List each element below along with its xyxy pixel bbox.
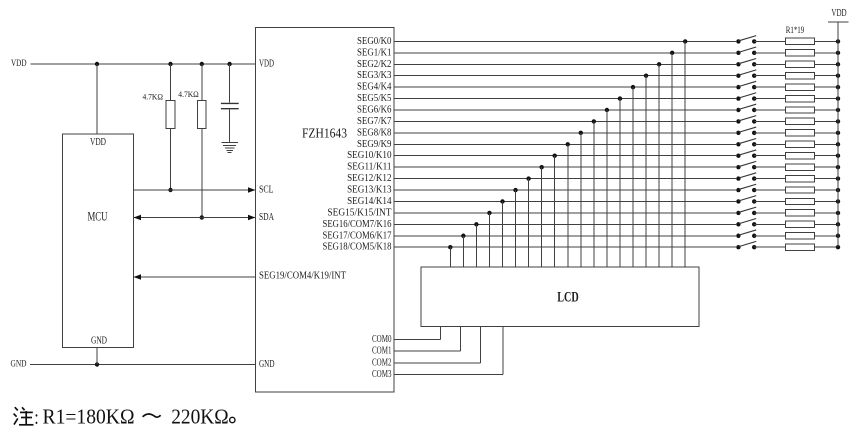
wire SEG9/K9 riser to LCD <box>567 144 569 267</box>
wire R3 top lead <box>201 64 203 101</box>
IC U1 FZH1643 body <box>256 27 395 392</box>
wire R1 element 2 to VDD rail <box>815 52 839 54</box>
svg-text:4.7KΩ: 4.7KΩ <box>143 92 164 102</box>
net label GND (bottom left) <box>11 360 27 370</box>
pin label SEG1/K1 <box>357 47 392 58</box>
wire SEG0/K0 riser to LCD <box>684 41 686 267</box>
pin label SEG8/K8 <box>357 127 392 138</box>
resistor R1 element 18 <box>786 233 815 239</box>
wire R1 element 19 to VDD rail <box>815 246 839 248</box>
pin label SEG3/K3 <box>357 70 392 81</box>
junction dot VDD rail row 4 <box>836 73 840 77</box>
wire SEG12/K12 riser to LCD <box>528 179 530 267</box>
junction dot SEG7/K7 riser <box>592 119 596 123</box>
junction dot VDD rail row 2 <box>836 51 840 55</box>
junction dot VDD rail row 11 <box>836 154 840 158</box>
wire R2 top lead <box>170 64 172 101</box>
svg-text:COM2: COM2 <box>372 357 392 368</box>
switch S16 <box>736 207 756 215</box>
junction dot SEG11/K11 riser <box>539 165 543 169</box>
junction dot SEG4/K4 riser <box>631 85 635 89</box>
wire SEG2/K2 row <box>394 63 736 65</box>
wire SEG7/K7 riser to LCD <box>593 121 595 267</box>
junction dot VDD rail row 5 <box>836 85 840 89</box>
wire SEG18/COM5/K18 row <box>394 246 736 248</box>
resistor R2 4.7K (SCL pull-up) <box>143 92 175 129</box>
pin label SEG19/COM4/K19/INT <box>259 271 346 282</box>
wire SEG3/K3 row <box>394 75 736 77</box>
wire SEG15/K15/INT row <box>394 212 736 214</box>
svg-text:SEG9/K9: SEG9/K9 <box>357 139 392 150</box>
wire R1 element 17 to VDD rail <box>815 223 839 225</box>
switch S8 <box>736 116 756 124</box>
junction dot VDD / R3 <box>200 62 204 66</box>
ground symbol <box>221 143 237 153</box>
junction dot VDD rail row 15 <box>836 199 840 203</box>
resistor R1 element 8 <box>786 118 815 124</box>
resistor R1 element 17 <box>786 221 815 227</box>
MCU block <box>63 134 134 348</box>
resistor R1 element 1 <box>786 38 815 44</box>
resistor R1 element 11 <box>786 153 815 159</box>
wire switch S14 to R1 <box>754 189 785 191</box>
wire R2 bottom lead <box>170 129 172 191</box>
LCD block <box>421 267 699 327</box>
svg-text:MCU: MCU <box>88 210 108 224</box>
wire switch S18 to R1 <box>754 235 785 237</box>
svg-text:SEG1/K1: SEG1/K1 <box>357 47 392 58</box>
arrowhead into SCL pin <box>248 187 256 193</box>
switch S18 <box>736 230 756 238</box>
resistor R1 element 7 <box>786 107 815 113</box>
wire R1 element 5 to VDD rail <box>815 86 839 88</box>
wire SEG6/K6 riser to LCD <box>606 110 608 267</box>
switch S3 <box>736 58 756 66</box>
svg-text:VDD: VDD <box>90 137 106 148</box>
wire VDD rail right <box>837 22 839 247</box>
switch S17 <box>736 219 756 227</box>
svg-text:R1*19: R1*19 <box>786 25 805 35</box>
resistor R1 element 13 <box>786 175 815 181</box>
junction dot SEG3/K3 riser <box>644 73 648 77</box>
wire switch S19 to R1 <box>754 246 785 248</box>
resistor R1 element 6 <box>786 95 815 101</box>
wire R1 element 3 to VDD rail <box>815 63 839 65</box>
resistor R1 element 10 <box>786 141 815 147</box>
wire SEG16/COM7/K16 row <box>394 223 736 225</box>
resistor R1 element 16 <box>786 210 815 216</box>
svg-text:COM3: COM3 <box>372 369 392 380</box>
resistor array value label R1*19 <box>786 25 805 35</box>
pin label SEG9/K9 <box>357 139 392 150</box>
wire SEG4/K4 riser to LCD <box>632 87 634 267</box>
svg-text:SEG6/K6: SEG6/K6 <box>357 104 392 115</box>
wire SEG13/K13 row <box>394 189 736 191</box>
svg-text:COM1: COM1 <box>372 346 392 357</box>
junction dot VDD rail row 19 <box>836 245 840 249</box>
svg-text:VDD: VDD <box>831 8 846 19</box>
junction dot VDD rail row 6 <box>836 96 840 100</box>
wire R1 element 8 to VDD rail <box>815 120 839 122</box>
junction dot SEG14/K14 riser <box>500 199 504 203</box>
wire switch S10 to R1 <box>754 143 785 145</box>
pin label SEG16/COM7/K16 <box>323 219 392 230</box>
switch S5 <box>736 81 756 89</box>
pin label SCL <box>259 185 274 196</box>
switch S12 <box>736 161 756 169</box>
note text: R1=180K~220K <box>14 405 235 430</box>
wire SEG7/K7 row <box>394 120 736 122</box>
junction dot SEG6/K6 riser <box>605 108 609 112</box>
wire SEG10/K10 row <box>394 155 736 157</box>
switch S19 <box>736 241 756 249</box>
wire R1 element 10 to VDD rail <box>815 143 839 145</box>
svg-text:GND: GND <box>91 336 107 347</box>
junction dot VDD rail row 3 <box>836 62 840 66</box>
wire SEG8/K8 row <box>394 132 736 134</box>
pin label SDA <box>259 212 274 223</box>
wire SEG5/K5 row <box>394 98 736 100</box>
wire SEG8/K8 riser to LCD <box>580 133 582 267</box>
junction dot SEG5/K5 riser <box>618 96 622 100</box>
wire SEG15/K15/INT riser to LCD <box>488 213 490 267</box>
switch S1 <box>736 36 756 44</box>
junction dot SEG9/K9 riser <box>566 142 570 146</box>
pin label SEG14/K14 <box>347 196 392 207</box>
resistor R1 element 9 <box>786 130 815 136</box>
junction dot SEG16/COM7/K16 riser <box>474 222 478 226</box>
junction dot VDD / C1 <box>227 62 231 66</box>
wire SDA <box>134 217 256 219</box>
wire switch S7 to R1 <box>754 109 785 111</box>
wire SEG11/K11 row <box>394 166 736 168</box>
wire SEG0/K0 row <box>394 40 736 42</box>
wire COM2 <box>394 327 480 363</box>
resistor R1 element 2 <box>786 50 815 56</box>
wire GND rail <box>30 364 256 366</box>
svg-text:SEG12/K12: SEG12/K12 <box>347 173 391 184</box>
wire R1 element 1 to VDD rail <box>815 40 839 42</box>
junction dot R3 / SDA <box>200 215 204 219</box>
switch S10 <box>736 139 756 147</box>
wire SEG1/K1 riser to LCD <box>671 53 673 267</box>
junction dot VDD / MCU drop <box>95 62 99 66</box>
svg-text:SEG10/K10: SEG10/K10 <box>347 150 391 161</box>
wire C1 top lead <box>229 64 231 103</box>
switch S14 <box>736 184 756 192</box>
wire R1 element 16 to VDD rail <box>815 212 839 214</box>
svg-text:SEG7/K7: SEG7/K7 <box>357 116 392 127</box>
wire R1 element 14 to VDD rail <box>815 189 839 191</box>
wire SEG17/COM6/K17 row <box>394 235 736 237</box>
wire COM3 <box>394 327 503 375</box>
arrowhead into SDA pin <box>248 215 256 221</box>
wire SEG19/COM4 <box>134 276 256 278</box>
resistor R1 element 4 <box>786 73 815 79</box>
wire SEG14/K14 row <box>394 200 736 202</box>
wire R1 element 4 to VDD rail <box>815 75 839 77</box>
pin label SEG6/K6 <box>357 104 392 115</box>
junction dot VDD rail row 13 <box>836 176 840 180</box>
wire SEG5/K5 riser to LCD <box>619 99 621 267</box>
wire SEG1/K1 row <box>394 52 736 54</box>
pin label SEG4/K4 <box>357 82 392 93</box>
pin label SEG11/K11 <box>347 162 391 173</box>
pin label SEG10/K10 <box>347 150 391 161</box>
pin label SEG2/K2 <box>357 59 392 70</box>
svg-text:SEG8/K8: SEG8/K8 <box>357 127 392 138</box>
wire switch S5 to R1 <box>754 86 785 88</box>
svg-text:FZH1643: FZH1643 <box>302 125 347 140</box>
junction dot R2 / SCL <box>168 188 172 192</box>
pin label COM3 <box>372 369 392 380</box>
junction dot VDD rail row 12 <box>836 165 840 169</box>
wire switch S6 to R1 <box>754 98 785 100</box>
wire switch S8 to R1 <box>754 120 785 122</box>
wire switch S3 to R1 <box>754 63 785 65</box>
svg-text:SEG5/K5: SEG5/K5 <box>357 93 392 104</box>
wire switch S15 to R1 <box>754 200 785 202</box>
junction dot VDD rail row 7 <box>836 108 840 112</box>
wire SEG6/K6 row <box>394 109 736 111</box>
resistor R1 element 14 <box>786 187 815 193</box>
svg-text:VDD: VDD <box>259 59 274 70</box>
capacitor C1 <box>221 103 239 108</box>
svg-text:VDD: VDD <box>11 59 27 69</box>
wire SEG16/COM7/K16 riser to LCD <box>475 224 477 267</box>
resistor R1 element 5 <box>786 84 815 90</box>
wire switch S12 to R1 <box>754 166 785 168</box>
wire SEG9/K9 row <box>394 143 736 145</box>
svg-text::: : <box>34 407 39 429</box>
junction dot VDD rail row 8 <box>836 119 840 123</box>
switch S15 <box>736 196 756 204</box>
wire MCU GND drop <box>96 348 98 365</box>
wire SEG3/K3 riser to LCD <box>645 76 647 267</box>
pin label SEG17/COM6/K17 <box>323 230 392 241</box>
wire R1 element 13 to VDD rail <box>815 178 839 180</box>
wire switch S16 to R1 <box>754 212 785 214</box>
pin label SEG5/K5 <box>357 93 392 104</box>
junction dot SEG1/K1 riser <box>670 51 674 55</box>
wire R1 element 15 to VDD rail <box>815 200 839 202</box>
pin label SEG13/K13 <box>347 185 391 196</box>
pin label SEG15/K15/INT <box>327 207 392 218</box>
junction dot VDD rail row 18 <box>836 234 840 238</box>
wire switch S9 to R1 <box>754 132 785 134</box>
wire R1 element 6 to VDD rail <box>815 98 839 100</box>
svg-text:SEG3/K3: SEG3/K3 <box>357 70 392 81</box>
junction dot VDD / R2 <box>168 62 172 66</box>
wire SCL <box>134 189 256 191</box>
wire R3 bottom lead <box>201 129 203 218</box>
svg-text:SEG13/K13: SEG13/K13 <box>347 185 391 196</box>
junction dot SEG0/K0 riser <box>683 39 687 43</box>
wire SEG11/K11 riser to LCD <box>541 167 543 267</box>
switch S7 <box>736 104 756 112</box>
pin label VDD <box>259 59 274 70</box>
resistor R1 element 12 <box>786 164 815 170</box>
wire switch S4 to R1 <box>754 75 785 77</box>
junction dot VDD rail row 9 <box>836 131 840 135</box>
junction dot VDD rail row 1 <box>836 39 840 43</box>
junction dot VDD rail row 14 <box>836 188 840 192</box>
junction dot VDD rail row 10 <box>836 142 840 146</box>
arrowhead into MCU (SEG19) <box>134 274 142 280</box>
resistor R1 element 3 <box>786 61 815 67</box>
switch S2 <box>736 47 756 55</box>
resistor R1 element 15 <box>786 198 815 204</box>
resistor R1 element 19 <box>786 244 815 250</box>
wire SEG4/K4 row <box>394 86 736 88</box>
wire C1 bottom lead <box>229 110 231 143</box>
wire switch S11 to R1 <box>754 155 785 157</box>
wire switch S1 to R1 <box>754 40 785 42</box>
junction dot VDD rail row 16 <box>836 211 840 215</box>
wire R1 element 18 to VDD rail <box>815 235 839 237</box>
svg-text:SEG2/K2: SEG2/K2 <box>357 59 392 70</box>
svg-text:SEG4/K4: SEG4/K4 <box>357 82 392 93</box>
pin label SEG12/K12 <box>347 173 391 184</box>
wire SEG13/K13 riser to LCD <box>515 190 517 267</box>
svg-text:4.7KΩ: 4.7KΩ <box>178 89 199 99</box>
switch S9 <box>736 127 756 135</box>
wire switch S13 to R1 <box>754 178 785 180</box>
pin label SEG18/COM5/K18 <box>323 242 392 253</box>
junction dot VDD rail row 17 <box>836 222 840 226</box>
wire COM0 <box>394 327 440 340</box>
switch S6 <box>736 93 756 101</box>
wire SEG17/COM6/K17 riser to LCD <box>462 236 464 267</box>
junction dot SEG10/K10 riser <box>553 154 557 158</box>
svg-text:SCL: SCL <box>259 185 274 196</box>
junction dot SEG2/K2 riser <box>657 62 661 66</box>
svg-text:LCD: LCD <box>557 290 579 306</box>
pin label COM1 <box>372 346 392 357</box>
svg-text:SEG17/COM6/K17: SEG17/COM6/K17 <box>323 230 392 241</box>
junction dot SEG18/COM5/K18 riser <box>448 245 452 249</box>
svg-text:GND: GND <box>259 359 275 370</box>
resistor R3 4.7K (SDA pull-up) <box>178 89 206 129</box>
junction dot SEG13/K13 riser <box>513 188 517 192</box>
junction dot SEG8/K8 riser <box>579 131 583 135</box>
svg-text:SDA: SDA <box>259 212 274 223</box>
junction dot SEG17/COM6/K17 riser <box>461 234 465 238</box>
svg-text:220KΩ: 220KΩ <box>171 405 229 429</box>
wire VDD drop to MCU <box>96 64 98 134</box>
wire R1 element 12 to VDD rail <box>815 166 839 168</box>
wire R1 element 9 to VDD rail <box>815 132 839 134</box>
switch S4 <box>736 70 756 78</box>
svg-text:SEG0/K0: SEG0/K0 <box>357 36 392 47</box>
svg-text:SEG15/K15/INT: SEG15/K15/INT <box>327 207 392 218</box>
svg-text:R1=180KΩ: R1=180KΩ <box>43 405 135 429</box>
pin label COM2 <box>372 357 392 368</box>
svg-text:COM0: COM0 <box>372 334 392 345</box>
arrowhead into MCU (SDA) <box>134 215 142 221</box>
switch S13 <box>736 173 756 181</box>
pin label GND <box>259 359 275 370</box>
pin label COM0 <box>372 334 392 345</box>
wire R1 element 11 to VDD rail <box>815 155 839 157</box>
svg-text:SEG19/COM4/K19/INT: SEG19/COM4/K19/INT <box>259 271 346 282</box>
wire COM1 <box>394 327 460 352</box>
svg-text:GND: GND <box>11 360 27 370</box>
power flag VDD (top right) <box>828 8 848 22</box>
junction dot GND / MCU <box>95 362 99 366</box>
wire switch S17 to R1 <box>754 223 785 225</box>
wire SEG10/K10 riser to LCD <box>554 156 556 267</box>
junction dot SEG15/K15/INT riser <box>487 211 491 215</box>
wire R1 element 7 to VDD rail <box>815 109 839 111</box>
junction dot SEG12/K12 riser <box>526 176 530 180</box>
switch S11 <box>736 150 756 158</box>
svg-text:SEG14/K14: SEG14/K14 <box>347 196 392 207</box>
wire SEG12/K12 row <box>394 178 736 180</box>
pin label SEG7/K7 <box>357 116 392 127</box>
wire SEG2/K2 riser to LCD <box>658 64 660 267</box>
svg-text:SEG11/K11: SEG11/K11 <box>347 162 391 173</box>
wire switch S2 to R1 <box>754 52 785 54</box>
svg-text:SEG18/COM5/K18: SEG18/COM5/K18 <box>323 242 392 253</box>
net label VDD (top left) <box>11 59 27 69</box>
wire VDD rail <box>31 63 256 65</box>
wire SEG18/COM5/K18 riser to LCD <box>449 247 451 267</box>
pin label SEG0/K0 <box>357 36 392 47</box>
svg-text:SEG16/COM7/K16: SEG16/COM7/K16 <box>323 219 392 230</box>
wire SEG14/K14 riser to LCD <box>502 201 504 267</box>
